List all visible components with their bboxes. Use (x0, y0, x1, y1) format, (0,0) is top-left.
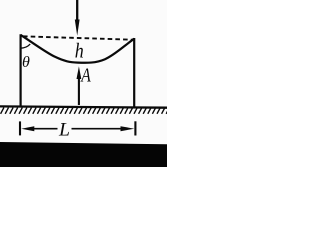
cable curve (21, 35, 135, 63)
right pole (133, 38, 135, 108)
top force arrowhead (75, 20, 80, 36)
svg-text:θ: θ (22, 54, 30, 71)
ground line (0, 106, 167, 107)
dimension line left segment (33, 128, 58, 130)
angle arc (21, 44, 31, 48)
ground hatching (1, 108, 170, 114)
dimension line right segment (72, 128, 122, 130)
A arrow shaft (78, 76, 80, 105)
A arrowhead (77, 66, 82, 79)
svg-text:h: h (75, 38, 84, 62)
dashed reference line (23, 36, 133, 39)
svg-text:L: L (58, 119, 70, 140)
dimension right arrowhead (121, 126, 135, 131)
bottom scan band (0, 142, 167, 167)
left pole (20, 34, 22, 107)
top force arrow shaft (76, 0, 78, 22)
dimension left tick (19, 121, 21, 135)
dimension left arrowhead (21, 126, 34, 131)
dimension right tick (134, 121, 136, 135)
svg-text:A: A (80, 64, 92, 86)
